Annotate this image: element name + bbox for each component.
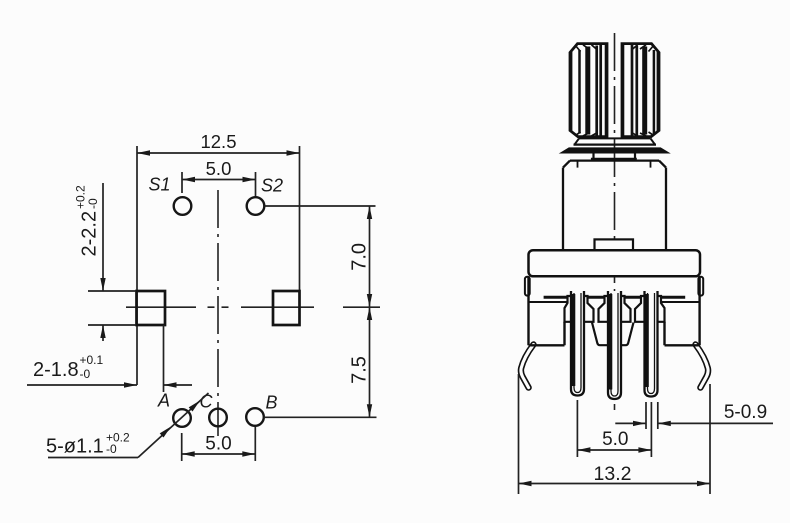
shaft skirt tier: [575, 138, 656, 144]
pin 3 (B): [645, 291, 658, 397]
svg-text:-0: -0: [86, 198, 100, 209]
svg-text:S1: S1: [148, 175, 170, 195]
svg-text:5.0: 5.0: [206, 158, 232, 179]
svg-text:-0: -0: [80, 367, 91, 381]
hole A: [173, 409, 191, 427]
hole B: [246, 408, 264, 426]
dimension 12.5: [137, 146, 300, 385]
hole S2: [247, 197, 265, 215]
neck below washer: [591, 153, 637, 159]
mounting leg left: [521, 345, 534, 388]
dimension 7.5 (right vertical): [369, 307, 371, 417]
body sides: [529, 276, 700, 345]
pin 1 shoulder: [565, 296, 594, 322]
bushing body: [563, 161, 666, 251]
mounting leg right: [696, 345, 709, 388]
pin 1 (A): [571, 291, 584, 396]
hole S1: [174, 197, 192, 215]
svg-text:13.2: 13.2: [594, 463, 632, 485]
pad right (1.8 square): [273, 291, 300, 325]
pad left (1.8 square): [137, 291, 166, 325]
leader 5-diameter1.1: [48, 393, 209, 458]
pin 2 shoulder: [599, 296, 631, 322]
svg-text:2-1.8: 2-1.8: [33, 359, 79, 381]
central web cup: [592, 323, 634, 346]
knurled shaft left half: [570, 44, 607, 137]
centerline vertical (left figure): [217, 190, 219, 436]
dimension 2-2.2 (left vertical): [88, 183, 136, 341]
knurled shaft right half: [622, 44, 659, 137]
boss on cap: [595, 239, 634, 250]
pin 2 (C): [608, 291, 621, 399]
side tab right: [698, 277, 703, 296]
hole C: [209, 409, 227, 427]
dimension 5.0 top: [182, 172, 256, 197]
svg-text:5.0: 5.0: [205, 434, 231, 455]
extension line from B: [264, 416, 377, 418]
svg-text:5-ø1.1: 5-ø1.1: [46, 436, 104, 458]
cap flange: [529, 250, 701, 276]
centerline vertical (right figure): [614, 33, 616, 410]
svg-text:S2: S2: [261, 176, 283, 196]
side tab left: [525, 277, 530, 296]
svg-text:A: A: [157, 391, 170, 411]
svg-text:+0.1: +0.1: [80, 353, 104, 367]
dimension 7.0 (right vertical): [343, 206, 380, 307]
seam line (thick): [544, 296, 686, 299]
dimension 13.2: [519, 374, 711, 494]
svg-text:B: B: [265, 393, 277, 413]
dimension 5.0 (right figure): [577, 400, 651, 457]
centerline horizontal through pads: [126, 306, 314, 308]
svg-text:7.5: 7.5: [349, 356, 371, 384]
svg-text:-0: -0: [106, 442, 117, 456]
svg-text:12.5: 12.5: [200, 131, 236, 152]
extension line from S2 to 7.0 dimension: [265, 205, 376, 207]
washer (black band): [561, 148, 670, 153]
svg-text:5.0: 5.0: [602, 429, 628, 450]
pin 3 shoulder: [635, 296, 665, 322]
svg-text:5-0.9: 5-0.9: [724, 402, 767, 423]
svg-text:2-2.2: 2-2.2: [79, 211, 101, 257]
dimension 5-0.9: [615, 402, 773, 429]
dimension 5.0 bottom (left figure): [182, 427, 256, 461]
shaft rim: [579, 137, 651, 139]
svg-text:7.0: 7.0: [349, 243, 371, 271]
dimension 2-1.8 (leader with text): [27, 325, 192, 392]
